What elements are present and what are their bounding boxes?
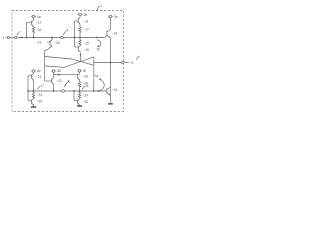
pad circle 7 [14,36,16,38]
svg-text:8b: 8b [84,13,88,17]
leader 2a [98,79,104,91]
wire Q22 emitter to bus [53,84,55,91]
wire Q26 to R28 [79,80,81,81]
transistor Q12 [32,20,34,27]
svg-text:~15: ~15 [54,41,60,45]
wire Q11 to R17 [79,24,81,26]
node dot bus c [53,90,55,92]
terminal 8d circle [52,70,55,73]
wire Q12 base [27,21,32,23]
wire Q11 base down to rail [74,21,76,38]
wire Q15 emitter bend [45,46,52,51]
transistor Q21 [28,74,34,81]
svg-text:~13: ~13 [36,40,42,44]
transistor Q11 [78,18,80,25]
ground chain L [31,105,36,107]
svg-text:8f: 8f [83,69,86,73]
svg-text:~29: ~29 [82,94,88,98]
node dot rail d [51,37,53,39]
wire join bracket [93,57,95,91]
wire Q12 base down to rail [26,22,28,37]
wire cross line A [45,57,94,66]
pad circle on bus [62,90,65,93]
terminal 8b circle [79,13,82,16]
wire 8a to Q12 [33,18,35,20]
svg-text:~26: ~26 [82,75,88,79]
transistor Q30 [74,99,80,106]
wire Q22 base lead [45,80,52,82]
pad label 7 slash [17,32,19,35]
wire R16 to rail [33,34,35,38]
label 29 slash [82,86,85,89]
terminal 8e circle [109,15,112,18]
wire rail bend to Q18 base [105,36,107,38]
resistor R17 [79,26,81,34]
node dot rail g [96,37,98,39]
terminal 8f circle [78,69,81,72]
transistor Q25 [28,99,34,106]
svg-text:4: 4 [66,28,68,32]
svg-text:~16: ~16 [36,28,42,32]
svg-text:2b: 2b [96,47,100,51]
resistor R28 [78,81,80,88]
emitter arrow Q19 [80,54,82,56]
svg-text:8e: 8e [114,15,118,19]
node dot output [110,62,112,64]
wire Q21 emitter to bus [33,80,35,91]
svg-text:~11: ~11 [83,19,89,23]
wire output horizontal [94,62,122,64]
resistor R16 [32,26,34,34]
svg-text:8a: 8a [37,15,41,19]
svg-text:8c: 8c [37,69,41,73]
IC outline dashed box [12,11,124,112]
svg-text:~25: ~25 [37,100,43,104]
terminal circle output [121,61,124,64]
resistor R20 [79,38,81,47]
resistor R29 [78,91,80,99]
node dot bus b [33,90,35,92]
node dot rail e [74,37,76,39]
transistor Q22 [52,78,54,85]
svg-text:2c: 2c [57,73,61,77]
wire 8c to Q21 [33,72,35,73]
svg-text:~21: ~21 [36,75,42,79]
wire R28 to bus [79,88,81,91]
svg-text:7: 7 [19,30,21,34]
svg-text:1: 1 [100,3,102,7]
input terminal circle [7,36,9,38]
node dot rail c [33,37,35,39]
node dot bus e [79,90,81,92]
svg-text:~19: ~19 [83,48,89,52]
node dot rail b [26,37,28,39]
svg-text:~12: ~12 [36,20,42,24]
wire lower bus [28,90,107,92]
wire output stub [124,62,129,64]
wire 8e down [110,18,112,30]
svg-text:29: 29 [85,84,89,88]
svg-text:~30: ~30 [83,100,89,104]
wire Q21 base vertical [27,76,29,101]
wire cross line B [45,57,94,67]
svg-text:~22: ~22 [56,79,62,83]
terminal 8c circle [32,70,35,73]
wire tap to Q26 base [54,74,78,76]
node dot bus f [98,90,100,92]
node dot bus d [73,90,75,92]
transistor Q15 [47,38,52,47]
ground chain R [108,103,113,105]
svg-text:~17: ~17 [83,27,89,31]
svg-text:2a: 2a [95,74,99,78]
label output slash [136,56,139,60]
wire Q19 emitter stub [79,52,81,61]
wire 8b to Q11 [79,16,81,18]
transistor Q18 [107,30,111,38]
node dot rail f [79,37,81,39]
transistor Q19 [75,38,81,53]
leader 2b [97,40,101,48]
wire input to pad [6,37,8,39]
svg-text:~23: ~23 [36,93,42,97]
svg-text:3: 3 [2,36,4,40]
label 27 slash [38,86,41,89]
wire 8f to Q26 [79,72,81,74]
wire 8d to Q22 [53,72,55,77]
wire R17 to rail [79,33,81,37]
wire Q11 base [75,20,79,22]
ground chain M [77,105,82,106]
svg-text:~31: ~31 [112,88,118,92]
svg-text:~6: ~6 [130,61,134,65]
node dot bus a [27,90,29,92]
transistor Q26 [78,74,80,81]
svg-text:~20: ~20 [83,42,89,46]
wire right vertical [110,38,112,104]
svg-text:27: 27 [41,84,45,88]
figure label 1 leader slash [96,6,100,11]
leader 2c slash [64,80,69,87]
wire main rail [17,37,105,39]
wire vertical emitter bus [44,51,46,81]
svg-text:~18: ~18 [112,32,118,36]
terminal 8a circle [32,15,35,18]
wire Q30 base vertical [73,91,75,101]
pad circle 4 on rail [61,36,64,39]
transistor Q31 [107,87,111,95]
node dot rail a [21,37,23,39]
pad label 4 slash [63,31,66,35]
resistor R23 [32,91,34,99]
